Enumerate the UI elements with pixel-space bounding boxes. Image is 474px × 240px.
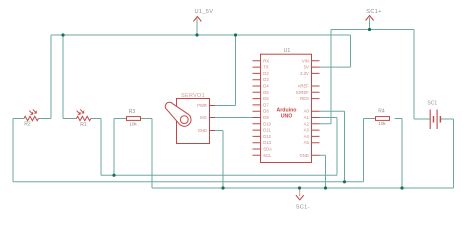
svg-text:D5: D5 xyxy=(263,90,269,95)
svg-text:3.3V: 3.3V xyxy=(300,71,309,76)
junction servo PWR / 5V rail xyxy=(234,33,237,36)
servo SERVO1 body xyxy=(177,99,210,144)
svg-text:A1: A1 xyxy=(304,115,310,120)
svg-text:D13: D13 xyxy=(263,140,271,145)
svg-text:GND: GND xyxy=(198,128,207,133)
svg-text:VIN: VIN xyxy=(302,58,309,63)
svg-text:R3: R3 xyxy=(129,109,136,115)
svg-text:10k: 10k xyxy=(378,121,386,126)
wire servo GND to rail xyxy=(215,131,223,189)
wire SC1+ arrow stem xyxy=(369,18,371,30)
svg-text:TX: TX xyxy=(263,65,269,70)
svg-text:SCL: SCL xyxy=(263,153,272,158)
wire U1_5V arrow stem xyxy=(196,19,198,36)
svg-text:SC1+: SC1+ xyxy=(366,9,382,15)
junction R1 riser / 5V rail xyxy=(61,33,64,36)
U1 right pin stubs xyxy=(312,61,320,156)
wire SC1+ rail and battery positive xyxy=(331,30,430,120)
svg-text:R4: R4 xyxy=(378,109,385,115)
svg-text:PWR: PWR xyxy=(197,103,207,108)
U1 left pin stubs xyxy=(253,61,261,156)
wire R2 right lead riser to 5V rail xyxy=(38,35,51,119)
svg-text:SC1: SC1 xyxy=(427,101,437,107)
svg-text:RX: RX xyxy=(263,58,269,63)
svg-text:A3: A3 xyxy=(304,128,310,133)
resistor R3 xyxy=(127,117,141,121)
power symbol SC1+ xyxy=(366,16,374,21)
servo horn hub xyxy=(180,116,188,124)
junction A0 riser / node rail xyxy=(343,180,346,183)
wire R3 left lead down xyxy=(114,119,127,176)
svg-text:U1_5V: U1_5V xyxy=(195,9,214,15)
svg-text:SC1-: SC1- xyxy=(296,205,310,211)
svg-text:D4: D4 xyxy=(263,84,269,89)
battery SC1 xyxy=(430,110,440,130)
wire 5V pin to rail xyxy=(320,35,351,67)
wire servo SIG to D9 xyxy=(215,117,253,119)
wire R4 right lead to rail xyxy=(395,119,403,189)
wire servo PWR to 5V rail xyxy=(215,35,236,106)
wire battery negative down xyxy=(441,119,454,188)
wire A0 pin riser xyxy=(320,111,345,182)
svg-text:SIG: SIG xyxy=(200,115,207,120)
wire GND bottom rail xyxy=(152,187,454,189)
svg-text:Arduino: Arduino xyxy=(277,107,297,113)
junction R3 left / node rail xyxy=(112,174,115,177)
op board U1 Arduino UNO body xyxy=(261,54,312,162)
junction SC1- / GND rail xyxy=(298,186,301,189)
wire R2 left lead down xyxy=(13,119,24,182)
svg-text:SERVO1: SERVO1 xyxy=(181,93,205,99)
svg-text:10k: 10k xyxy=(129,121,137,126)
svg-text:IOREF: IOREF xyxy=(296,90,309,95)
wire R4 left lead down xyxy=(364,119,376,182)
svg-text:D11: D11 xyxy=(263,128,271,133)
svg-text:R2: R2 xyxy=(24,122,31,128)
servo SERVO1 pin stubs xyxy=(210,106,216,131)
svg-text:D6: D6 xyxy=(263,96,269,101)
wire SC1+ to A2 pin xyxy=(320,30,332,124)
wire 5V rail top xyxy=(51,34,351,36)
photoresistor R2 xyxy=(24,109,38,120)
wire A1 pin riser xyxy=(320,118,338,176)
junction Arduino GND / rail xyxy=(324,186,327,189)
wire R1 left lead riser to 5V rail xyxy=(63,35,76,119)
svg-text:A5: A5 xyxy=(304,140,310,145)
svg-text:A4: A4 xyxy=(304,134,310,139)
junction R4 right / rail xyxy=(400,186,403,189)
svg-text:UNO: UNO xyxy=(281,114,293,120)
junction U1_5V / 5V rail xyxy=(195,33,198,36)
wire R3 right lead to GND rail xyxy=(141,119,153,189)
svg-text:D3: D3 xyxy=(263,77,269,82)
svg-text:A0: A0 xyxy=(304,109,310,114)
svg-text:D9: D9 xyxy=(263,115,269,120)
svg-text:D7: D7 xyxy=(263,102,269,107)
svg-text:U1: U1 xyxy=(284,48,291,54)
wire R1-R3 node rail to A1 xyxy=(101,174,337,176)
wire Arduino GND pin to rail xyxy=(320,155,326,188)
junction servo GND / GND rail xyxy=(221,186,224,189)
svg-text:D10: D10 xyxy=(263,121,271,126)
photoresistor R1 xyxy=(76,109,90,120)
wire R2-R4 node rail to A0 xyxy=(13,181,364,183)
power symbol SC1- xyxy=(296,189,304,200)
svg-text:5V: 5V xyxy=(304,65,309,70)
svg-text:R1: R1 xyxy=(80,122,87,128)
svg-text:RES: RES xyxy=(300,96,309,101)
servo horn xyxy=(165,102,191,126)
svg-text:D8: D8 xyxy=(263,109,269,114)
svg-text:GND: GND xyxy=(299,153,308,158)
junction SC1+ arrow / rail xyxy=(368,28,371,31)
svg-text:D2: D2 xyxy=(263,71,269,76)
resistor R4 xyxy=(376,117,390,121)
power symbol U1_5V xyxy=(193,17,201,22)
svg-text:SDA: SDA xyxy=(263,147,272,152)
wire R1 right lead down xyxy=(91,119,101,176)
svg-text:A2: A2 xyxy=(304,121,310,126)
svg-text:AREF: AREF xyxy=(298,84,310,89)
svg-text:D12: D12 xyxy=(263,134,271,139)
